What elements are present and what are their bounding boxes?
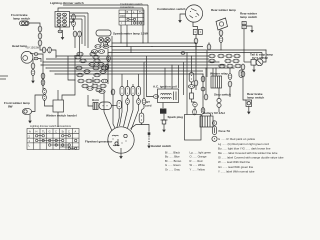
wire vertical from label leader: [147, 5, 149, 43]
connector below head lamp b: [31, 70, 35, 76]
connector right r3c: [235, 64, 241, 68]
svg-text:Gl ...... label Covered with o: Gl ...... label Covered with orange doub…: [218, 155, 284, 159]
wire handel contact down: [148, 135, 150, 138]
wire bus y65: [41, 64, 225, 66]
connector right of horn: [117, 101, 121, 109]
connector in dimmer box: [57, 20, 61, 23]
connector chain left b: [38, 33, 42, 39]
connector cluster r1a: [75, 55, 81, 59]
connector below combo b: [198, 30, 202, 35]
wire right of coil a: [195, 43, 197, 80]
ground tail lamp: [252, 67, 256, 72]
svg-text:Br ...... Brown: Br ...... Brown: [165, 159, 182, 163]
connector right r2b: [225, 59, 231, 63]
ground spark plug: [162, 127, 166, 132]
wire head lamp lower: [38, 59, 41, 63]
wire relay feed left: [212, 68, 214, 76]
wire battery negative up: [202, 108, 204, 112]
svg-text:Y ...... Yellow: Y ...... Yellow: [190, 167, 205, 171]
svg-text:R ...... Red: R ...... Red: [190, 159, 203, 163]
fuse bottom circle: [212, 136, 217, 141]
connector cluster r3b: [98, 63, 104, 67]
wire pair to cluster: [52, 50, 57, 58]
connector cluster r6b: [94, 73, 100, 77]
connector col e1: [142, 99, 146, 105]
wire left stub2: [0, 78, 6, 80]
flywheel generator: [108, 127, 134, 153]
svg-text:C: C: [55, 130, 57, 134]
wire front winker ground link: [29, 114, 31, 118]
wire rear winker switch down: [243, 29, 245, 62]
wire stadium to handel drop: [142, 123, 150, 132]
wire bus y50: [112, 49, 266, 51]
wire front winker feed: [32, 95, 43, 112]
wire rear winker drop: [220, 42, 222, 50]
connector tail drop a: [241, 64, 245, 70]
connector right vert chain a: [228, 74, 232, 80]
ground handel switch: [147, 143, 151, 148]
svg-text:Rear winker lamp: Rear winker lamp: [211, 8, 236, 12]
svg-text:C: C: [68, 130, 70, 134]
connector right r1a: [209, 54, 215, 58]
connector cluster r8a: [82, 84, 88, 88]
svg-text:Head lamp: Head lamp: [12, 44, 27, 48]
connector in dimmer box: [63, 17, 67, 20]
battery: [200, 114, 213, 127]
svg-text:St: St: [62, 130, 65, 134]
ground at combo switch: [178, 18, 182, 23]
wire column x122 lower: [120, 96, 123, 127]
connector right r2a: [209, 59, 215, 63]
wire chain g: [205, 68, 207, 94]
wire dimmer drop down: [74, 37, 76, 48]
svg-text:G ...... R: Red paint on yello: G ...... R: Red paint on yellow: [218, 137, 256, 141]
ground flywheel generator: [119, 154, 123, 159]
speedometer bulb b: [105, 37, 110, 42]
connector column right of dimmer box: [72, 14, 76, 20]
lighting dimmer switch box: [55, 12, 70, 28]
wire cluster vertical b: [111, 36, 113, 95]
connector below dimmer: [58, 30, 62, 33]
wire coil side drop b: [183, 62, 185, 95]
wire bus y62: [43, 61, 219, 63]
svg-text:Gr ...... Gray: Gr ...... Gray: [165, 167, 180, 171]
connector cluster vertical f: [105, 64, 109, 70]
wire dimmer label leader: [63, 4, 148, 6]
wire magneto to handel junction: [131, 125, 142, 129]
wire column x127: [127, 80, 129, 87]
svg-text:6V 15/15W: 6V 15/15W: [27, 46, 40, 50]
ground below dimmer: [61, 35, 65, 40]
wire column x144 link: [142, 105, 145, 114]
lighting dimmer switch connection table: [27, 129, 79, 150]
wire coil side drop a: [178, 65, 180, 88]
wire head lamp drop2: [32, 76, 34, 79]
svg-text:Combination switch: Combination switch: [157, 7, 186, 11]
connector cluster r7a: [78, 79, 84, 83]
wire speedo drop a: [100, 43, 102, 45]
wire column x122: [121, 74, 123, 87]
connector cluster r8c: [100, 84, 106, 88]
wire cluster vertical c: [107, 49, 109, 84]
wire speedo drop b: [107, 43, 109, 45]
ground below head lamp: [31, 78, 35, 83]
speedometer bulb a: [98, 37, 103, 42]
wire head lamp drop: [32, 59, 34, 63]
wire vertical from dimmer feed4: [81, 19, 83, 44]
wire chain d down: [195, 86, 197, 90]
svg-text:Fuse 7A: Fuse 7A: [219, 129, 232, 133]
junction dots: [40, 42, 266, 80]
connector cluster r5b: [100, 70, 106, 74]
front brake lamp switch: [20, 21, 30, 26]
spark plug: [160, 109, 168, 128]
svg-text:Lg ...... light green: Lg ...... light green: [190, 151, 212, 155]
wire horn left: [88, 95, 93, 106]
connector right r3b: [227, 64, 233, 68]
wire rear winker link: [220, 29, 222, 31]
connector cluster extra c: [87, 87, 93, 91]
wire bus y53: [108, 52, 262, 54]
combination switch connection table: [119, 10, 144, 25]
svg-text:Lighting dimmer switch connect: Lighting dimmer switch connections: [30, 124, 72, 128]
tail and stop lamp: [251, 59, 263, 66]
svg-text:Winker switch handel: Winker switch handel: [46, 114, 77, 118]
svg-text:W ...... lead With Red line: W ...... lead With Red line: [218, 160, 251, 164]
wire chain left down: [40, 46, 43, 50]
handel switch dots: [148, 138, 149, 142]
wire left chain down: [42, 60, 44, 90]
wire dimmer side feed c: [70, 18, 83, 20]
stop switch: [217, 88, 221, 107]
wire cluster to magneto diag: [104, 93, 112, 131]
connector cluster r4b: [93, 66, 99, 70]
svg-text:lamp switch: lamp switch: [13, 17, 30, 21]
wire bus y74: [55, 73, 203, 75]
wire mid chain link3: [194, 107, 196, 110]
wire winker switch feed: [44, 87, 46, 90]
wire bus y59: [46, 58, 209, 60]
svg-text:Battery 6V 2AH: Battery 6V 2AH: [203, 111, 225, 115]
svg-text:Flywheel generator: Flywheel generator: [85, 140, 113, 144]
svg-text:A: A: [29, 130, 31, 134]
connector mid chain b: [190, 93, 194, 99]
rear winker lamp body: [216, 18, 228, 30]
wire winker box bottom: [57, 112, 59, 127]
svg-text:H: H: [36, 130, 38, 134]
svg-text:Horn: Horn: [92, 98, 99, 102]
connector right r2c: [233, 59, 239, 63]
connector above battery: [201, 108, 205, 114]
ground rear brake switch: [247, 109, 251, 114]
wire right cluster vert b: [215, 68, 217, 76]
connector cluster r1b: [93, 55, 99, 59]
wire column x133 lower: [128, 96, 134, 129]
wire pair link: [46, 49, 48, 51]
wire cluster to magneto b: [117, 109, 119, 127]
wire below combo: [195, 35, 197, 39]
wire column x144: [143, 62, 145, 99]
svg-text:Stop switch: Stop switch: [214, 93, 231, 97]
svg-text:lamp switch: lamp switch: [247, 96, 264, 100]
wire horn right: [112, 105, 118, 107]
connector stadium right: [239, 70, 243, 77]
wire cluster vertical d: [68, 56, 75, 80]
svg-text:cord: cord: [145, 104, 152, 108]
connector cluster top a: [77, 52, 83, 56]
wire above right cluster: [208, 43, 210, 44]
wire cluster vertical e: [92, 77, 94, 84]
wire right column down: [73, 26, 75, 30]
connector below combo c: [194, 38, 198, 44]
connector cluster r5a: [84, 70, 90, 74]
wire table drop a: [120, 25, 122, 43]
wire dimmer second feed: [70, 12, 89, 14]
connector below combo a: [193, 30, 197, 35]
wire stop switch down: [218, 107, 220, 112]
connector in dimmer box: [57, 17, 61, 20]
svg-text:Lighting dimmer switch: Lighting dimmer switch: [50, 1, 84, 5]
frame box: [185, 115, 202, 141]
wire mid chain link2: [192, 99, 196, 102]
connector chain f: [201, 87, 205, 91]
wire dimmer top feed: [58, 8, 143, 12]
connector under rear winker a: [219, 30, 223, 36]
connector under speedo e: [104, 41, 108, 47]
connector under speedo a: [95, 45, 101, 49]
connector cluster r3a: [89, 63, 95, 67]
connector right r3a: [219, 64, 225, 68]
connector mid chain circle: [193, 102, 197, 106]
connector cluster vertical g: [107, 56, 111, 62]
wire cluster drop left: [62, 90, 75, 100]
combination switch (ignition): [185, 5, 202, 22]
wire frame box top: [186, 53, 188, 115]
wire dimmer side feed b: [70, 15, 86, 17]
winker switch box: [53, 100, 64, 112]
connector cluster top b: [90, 52, 96, 56]
connector cluster r9a: [96, 88, 102, 92]
fuse top circle: [212, 121, 216, 125]
wire dimmer to right column: [70, 20, 74, 22]
wire bus jog: [130, 47, 132, 54]
wire coil feed a: [164, 68, 166, 89]
wire column x138 link: [138, 96, 140, 99]
svg-text:B: B: [127, 10, 129, 14]
connector cluster r6a: [77, 73, 83, 77]
connector at head lamp b: [34, 57, 38, 60]
svg-text:Bu ...... Blue: Bu ...... Blue: [165, 155, 180, 159]
speedometer body: [96, 30, 111, 36]
connector under speedo b: [103, 45, 109, 49]
wire chain left link2: [39, 39, 41, 40]
svg-text:lamp switch: lamp switch: [240, 15, 257, 19]
wire bus drop to tail: [263, 50, 266, 62]
connector above winker switch b: [43, 95, 47, 101]
wire bus drop to coil connector: [147, 56, 154, 97]
wire rear winker switch to ground: [246, 26, 252, 28]
connector stadium above magneto: [139, 113, 144, 123]
connector cluster r2b: [94, 59, 100, 63]
wire to tail lamp: [244, 61, 251, 63]
wire tail drop down: [243, 77, 246, 100]
rear winker switch contacts: [242, 22, 246, 29]
wire combo switch bottom: [193, 22, 198, 30]
connector col a1: [120, 87, 124, 96]
connector in dimmer box: [63, 13, 67, 16]
connector below dimmer: [73, 31, 77, 37]
connector below dimmer: [78, 31, 82, 37]
connector tail drop b: [241, 71, 245, 77]
wire left stub1: [0, 75, 8, 77]
label colour legend col2: [190, 151, 212, 172]
wire vertical from dimmer feed: [142, 8, 144, 43]
ground rear winker switch: [250, 28, 254, 33]
connector chain g: [204, 94, 208, 100]
connector on bus: [181, 52, 185, 55]
ground front winker: [28, 118, 32, 123]
svg-text:Y ...... label With normal tub: Y ...... label With normal tube: [218, 170, 255, 174]
svg-text:8W: 8W: [8, 105, 13, 109]
wire winker switch link: [45, 100, 54, 106]
connector below head lamp a: [31, 63, 35, 69]
connector mid chain a: [188, 85, 194, 89]
svg-text:Bu ...... light blue Y/G ...: Bu ...... light blue Y/G ...... dark bro…: [218, 146, 271, 150]
wire ht cord: [162, 103, 164, 109]
connector at head lamp a: [34, 53, 38, 56]
wire bus y46: [110, 46, 203, 48]
connector chain left a: [38, 26, 42, 32]
wire battery to fuse: [213, 120, 215, 122]
wire cluster vertical a: [74, 55, 76, 90]
wire bus y68: [46, 67, 234, 69]
connector cluster r7b: [86, 79, 92, 83]
wire battery feed from bus: [202, 74, 204, 108]
wire winker box top: [57, 90, 59, 100]
wire bus y71: [50, 70, 203, 72]
label colour legend col1: [165, 151, 182, 172]
wire column x127 link: [127, 96, 129, 99]
connector stadium mid chain: [189, 73, 194, 83]
head lamp: [21, 51, 33, 63]
wire right chain down: [229, 87, 231, 97]
wire bus y43: [112, 42, 196, 44]
wire coil feed b: [171, 65, 173, 89]
wire right cluster vert a: [206, 50, 208, 77]
wire column x133: [132, 84, 134, 87]
wire bus drop to tail2: [261, 53, 263, 59]
wire vertical from dimmer feed3: [84, 16, 86, 46]
wire combo switch left: [180, 14, 185, 18]
wire rear brake switch ground link: [248, 106, 250, 109]
connector right vert chain b: [228, 81, 232, 87]
connector under speedo c: [91, 50, 97, 54]
rear brake lamp switch: [246, 100, 252, 106]
connector pair mid a: [42, 47, 46, 53]
svg-text:Bl ...... Black: Bl ...... Black: [165, 151, 181, 155]
connector in dimmer box: [57, 24, 61, 27]
connector col b1: [126, 87, 130, 96]
connector in dimmer box: [63, 20, 67, 23]
connector above horn b: [111, 89, 115, 95]
connector cluster r8b: [92, 84, 98, 88]
connector chain e: [201, 76, 205, 82]
wire table drop b: [126, 25, 128, 47]
connector pair mid b: [48, 47, 52, 53]
connector cluster r7d: [101, 79, 107, 83]
connector above right cluster: [207, 44, 211, 50]
wire dimmer drop a: [59, 27, 61, 30]
svg-text:G ...... Green: G ...... Green: [165, 163, 181, 167]
wire bus y56: [56, 55, 209, 57]
connector right r1b: [218, 54, 224, 58]
connector column right of dimmer box b: [72, 21, 76, 27]
connector mid chain c: [193, 109, 197, 115]
wire dimmer drop down2: [79, 37, 81, 55]
wire ignition drop a: [191, 56, 193, 73]
ignition coil: [153, 89, 178, 103]
wire dimmer drop b: [62, 30, 64, 35]
connector under rear winker b: [219, 37, 223, 43]
wire column x138 lower: [131, 105, 139, 131]
wire right cluster vert c: [229, 68, 231, 73]
connector right r1d: [234, 54, 240, 58]
connector chain left c: [38, 40, 42, 46]
winker relay: [211, 76, 222, 88]
connector under speedo d: [98, 50, 104, 54]
wire combo to bus: [195, 44, 197, 50]
connector in dimmer box: [63, 24, 67, 27]
svg-text:Speedometer lamp 1.5W: Speedometer lamp 1.5W: [113, 32, 148, 36]
svg-text:Gn ...... lead With green line: Gn ...... lead With green line: [218, 165, 254, 169]
connector cluster r7c: [94, 79, 100, 83]
connector chain d: [194, 80, 198, 86]
wire column x127 lower: [124, 105, 128, 127]
fuse body: [213, 126, 217, 135]
wire tail lamp ground link: [253, 65, 255, 67]
wire head lamp to bus: [38, 54, 43, 60]
wire vertical from dimmer feed2: [87, 13, 89, 48]
connector above winker switch a: [43, 89, 47, 95]
svg-text:Spark plug: Spark plug: [168, 115, 184, 119]
connector right r1c: [226, 54, 232, 58]
svg-text:OFF: OFF: [120, 14, 126, 18]
svg-text:Lg ...... (G) Red paint on lig: Lg ...... (G) Red paint on light green c…: [218, 142, 269, 146]
svg-text:connections: connections: [120, 5, 135, 9]
connector col b2: [126, 99, 130, 105]
label colour legend combinations: [218, 137, 284, 174]
wire chain left link: [39, 32, 41, 33]
connector col d2: [137, 99, 141, 105]
wire mid chain link1: [191, 88, 193, 93]
front winker lamp: [22, 108, 31, 114]
svg-text:A: A: [75, 130, 77, 134]
svg-text:O ...... Orange: O ...... Orange: [190, 155, 208, 159]
connector on left vertical a: [41, 73, 45, 79]
wire column x138: [138, 74, 140, 87]
handel switch contact: [148, 132, 151, 135]
wire brake switch to chain: [29, 23, 40, 26]
connector above horn: [99, 90, 105, 94]
horn: [93, 102, 112, 110]
connector col d1: [137, 87, 141, 96]
connector col c1: [131, 87, 135, 96]
wire cluster to magneto a: [113, 95, 115, 128]
svg-text:Mo ...... label Covered with t: Mo ...... label Covered with this winker…: [218, 151, 278, 155]
svg-text:G: G: [49, 130, 51, 134]
connector cluster r4a: [76, 66, 82, 70]
connector in dimmer box: [57, 13, 61, 16]
